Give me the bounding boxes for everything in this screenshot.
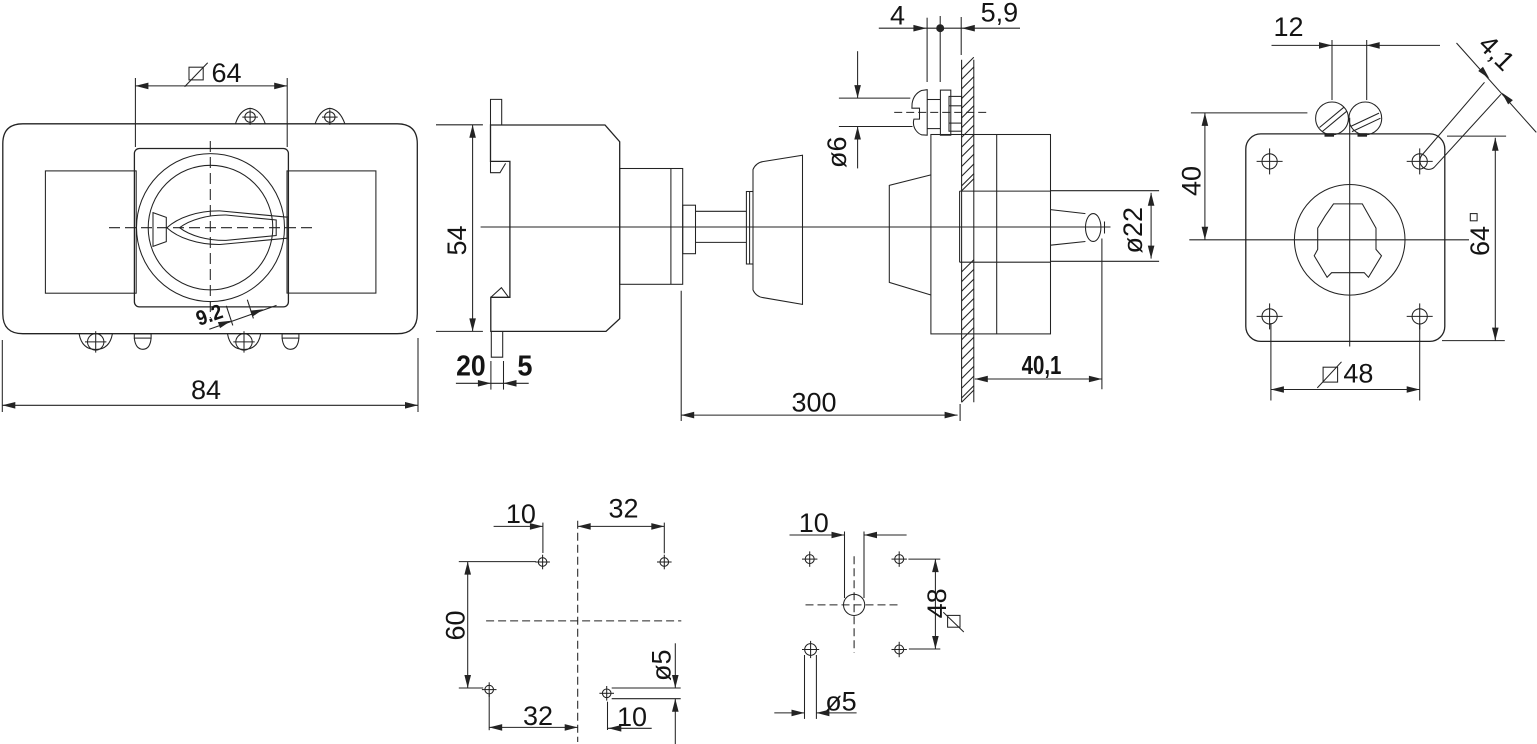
front view dashed centerline horizontal xyxy=(109,227,317,229)
side body top tab xyxy=(491,99,502,125)
hole C xyxy=(485,685,494,694)
hole E xyxy=(805,555,814,564)
left window rectangle xyxy=(45,171,136,293)
handle cone (side view of knob) xyxy=(753,155,803,304)
hole H xyxy=(895,645,904,654)
output shaft tip cone xyxy=(1051,210,1086,246)
front boss cylinder xyxy=(620,169,683,285)
screw nut block xyxy=(940,90,950,135)
svg-text:60: 60 xyxy=(440,610,470,640)
dashed axis horizontal xyxy=(806,604,902,606)
side body bottom tab xyxy=(491,331,502,357)
svg-text:32: 32 xyxy=(523,701,553,731)
dimension diam 5 (hole G) xyxy=(804,655,806,719)
hole B xyxy=(660,558,669,567)
slot extension lines xyxy=(844,532,846,599)
svg-text:ø6: ø6 xyxy=(822,136,852,168)
upper left clip notch xyxy=(491,161,506,172)
corner hole bottom-right xyxy=(1412,309,1427,324)
top screw bump left xyxy=(236,108,266,123)
base unit rectangle xyxy=(931,135,1051,334)
main axis centerline xyxy=(481,226,1111,228)
dimension 5,9 xyxy=(960,17,962,55)
dimension 4 xyxy=(926,18,928,82)
screw axis dashed xyxy=(894,111,990,113)
plate centerline vertical xyxy=(1349,118,1351,347)
handle outer outline xyxy=(167,211,287,245)
handle end cap at plate edge xyxy=(286,216,288,240)
dimension square 48 right xyxy=(908,558,940,560)
dimension 9.2 (handle width) xyxy=(209,305,276,329)
side body outline xyxy=(491,125,620,331)
svg-text:64: 64 xyxy=(212,58,242,88)
svg-text:48: 48 xyxy=(1343,359,1373,389)
top screw circle right xyxy=(325,112,335,122)
dimension 10 slot xyxy=(790,534,845,536)
screw head right xyxy=(1349,102,1382,135)
washer disc xyxy=(746,192,753,265)
corner hole bottom-left xyxy=(1262,309,1277,324)
right window rectangle xyxy=(287,171,376,293)
bottom tab 1 xyxy=(134,334,151,338)
dimension diam 22 xyxy=(1051,190,1160,192)
bottom screw bump 1 xyxy=(79,334,112,350)
shaft collar xyxy=(683,205,696,254)
tip center tick xyxy=(1104,222,1106,234)
dashed axis vertical xyxy=(577,521,579,742)
svg-text:4: 4 xyxy=(890,1,905,31)
dimension 60 left xyxy=(459,561,536,563)
svg-text:5,9: 5,9 xyxy=(981,0,1019,28)
panel hatching xyxy=(962,57,974,402)
svg-text:54: 54 xyxy=(442,225,472,255)
center bore circle xyxy=(1294,185,1405,296)
lower left clip triangle xyxy=(491,288,509,298)
dimension 10 bottom-right xyxy=(607,702,609,730)
bottom screw circle 1 xyxy=(88,334,104,350)
svg-text:32: 32 xyxy=(609,494,639,524)
svg-text:ø22: ø22 xyxy=(1118,207,1148,254)
knob outer circle xyxy=(137,154,285,302)
dimension 84 bottom xyxy=(1,340,3,412)
funnel adapter xyxy=(889,175,931,295)
svg-text:10: 10 xyxy=(617,702,647,732)
hole G xyxy=(805,644,817,656)
svg-text:300: 300 xyxy=(792,388,837,418)
tri-lobe shaft aperture xyxy=(1314,204,1381,277)
corner hole top-left xyxy=(1262,154,1277,169)
svg-text:ø5: ø5 xyxy=(647,649,677,681)
top screw bump right xyxy=(315,108,345,123)
svg-text:12: 12 xyxy=(1274,12,1304,42)
svg-text:10: 10 xyxy=(506,499,536,529)
svg-text:84: 84 xyxy=(191,375,221,405)
center hole circle xyxy=(844,594,865,615)
shaft tip ellipse xyxy=(1086,214,1101,242)
bushing through panel xyxy=(960,190,1051,192)
dimension 20 / 5 xyxy=(490,361,492,390)
hole D xyxy=(602,689,611,698)
handle tab trapezoid xyxy=(153,213,166,247)
knob inner circle xyxy=(148,165,273,290)
screw shank xyxy=(927,99,940,101)
svg-text:10: 10 xyxy=(799,508,829,538)
dimension 300 xyxy=(680,291,682,421)
square mounting plate 64x64 xyxy=(134,149,288,307)
dashed axis vertical xyxy=(853,556,855,653)
bottom screw bump 2 xyxy=(228,334,261,350)
hole F xyxy=(895,555,904,564)
dimension 54 xyxy=(436,124,483,126)
screw head xyxy=(912,90,927,136)
svg-text:64: 64 xyxy=(1465,226,1495,256)
screw-plate contact marks xyxy=(1325,133,1335,136)
bottom screw circle 2 xyxy=(236,334,252,350)
svg-text:40,1: 40,1 xyxy=(1022,350,1062,380)
long thin shaft xyxy=(696,210,747,212)
bottom tab 2 xyxy=(282,334,299,338)
panel (hatched wall) xyxy=(961,60,963,403)
corner hole top-right xyxy=(1412,154,1427,169)
front view dashed centerline vertical xyxy=(209,141,211,318)
plate centerline horizontal xyxy=(1189,239,1469,241)
dashed axis horizontal xyxy=(486,620,681,622)
svg-text:ø5: ø5 xyxy=(825,687,857,717)
dimension square 48 bottom xyxy=(1270,323,1272,401)
switch body rounded rectangle xyxy=(3,124,418,334)
dimension 10 top-left xyxy=(494,525,543,527)
svg-text:5: 5 xyxy=(517,351,532,383)
plate square xyxy=(1246,134,1445,342)
dimension 40 vertical xyxy=(1191,112,1308,114)
hole A xyxy=(538,558,547,567)
dimension 32 top xyxy=(663,523,665,554)
dimension 64 square right xyxy=(1447,135,1506,137)
screw head left xyxy=(1316,102,1349,135)
locking pin xyxy=(1420,82,1501,169)
handle inner outline xyxy=(180,215,277,240)
top screw circle left xyxy=(245,112,255,122)
svg-text:20: 20 xyxy=(456,351,486,383)
dimension diam 6 xyxy=(839,97,910,99)
dimension 12 xyxy=(1331,40,1333,100)
dimension 40,1 xyxy=(1101,239,1103,390)
svg-text:48: 48 xyxy=(922,588,952,618)
svg-text:40: 40 xyxy=(1177,166,1207,196)
threaded section xyxy=(949,96,962,131)
dimension 32 bottom xyxy=(488,695,490,731)
dimension 4,1 diagonal xyxy=(1457,43,1537,132)
dimension square-64 top xyxy=(134,78,136,147)
dimension diam 5 (hole D) xyxy=(612,687,681,689)
